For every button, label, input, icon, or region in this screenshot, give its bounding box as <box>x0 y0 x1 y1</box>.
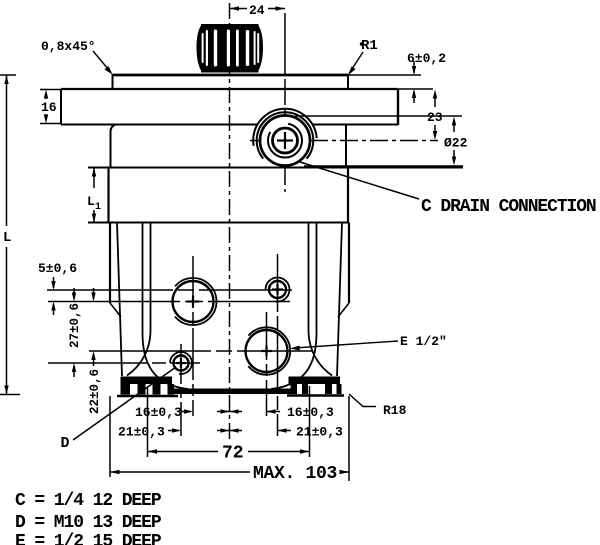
body inner contour right <box>271 223 332 390</box>
svg-text:21±0,3: 21±0,3 <box>296 425 343 440</box>
dimension 6±0,2 <box>348 51 446 103</box>
small upper right hole <box>266 278 290 302</box>
dimension L <box>0 75 20 395</box>
dimension 5±0,6 <box>38 261 77 315</box>
dimension 27±0,6 <box>68 288 82 377</box>
svg-text:MAX. 103: MAX. 103 <box>253 464 337 484</box>
big circle center cross <box>187 296 199 308</box>
E port vertical centerline <box>266 312 268 416</box>
label D with leader <box>61 367 177 452</box>
centerline vertical main axis <box>229 3 231 443</box>
body inner contour left <box>127 223 188 390</box>
svg-text:C DRAIN CONNECTION: C DRAIN CONNECTION <box>421 197 596 217</box>
label R18 <box>349 394 407 418</box>
dimension row 21±0,3 left <box>118 425 242 440</box>
svg-text:22±0,6: 22±0,6 <box>88 369 102 414</box>
svg-text:1: 1 <box>95 202 101 213</box>
svg-text:27±0,6: 27±0,6 <box>68 303 82 348</box>
svg-text:16±0,3: 16±0,3 <box>135 405 182 420</box>
drain port boss outer arc B <box>253 109 317 173</box>
dimension 23 <box>427 90 443 141</box>
D hole vertical centerline <box>180 344 182 436</box>
drain port bore <box>273 128 298 153</box>
svg-text:D: D <box>61 435 70 452</box>
dimension 72 <box>148 444 310 464</box>
dimension row 21±0,3 right <box>217 425 343 440</box>
dimension 24 top <box>230 3 286 18</box>
svg-text:6±0,2: 6±0,2 <box>407 51 446 66</box>
label R1 <box>348 38 378 76</box>
right foot <box>287 377 344 396</box>
svg-text:E 1/2": E 1/2" <box>400 334 447 349</box>
big circle vertical centerline <box>192 256 194 416</box>
dimension L1 <box>87 168 101 223</box>
drain port center cross <box>277 132 293 149</box>
svg-text:Ø22: Ø22 <box>444 136 468 151</box>
drain port boss outer arc A <box>257 112 314 169</box>
spline shaft <box>197 24 264 73</box>
svg-text:0,8x45°: 0,8x45° <box>41 39 96 54</box>
dimension 22±0,6 <box>88 288 102 414</box>
svg-text:L: L <box>87 194 95 209</box>
drain port horizontal centerline <box>250 140 438 142</box>
svg-text:21±0,3: 21±0,3 <box>118 425 165 440</box>
svg-text:E = 1/2 15 DEEP: E = 1/2 15 DEEP <box>15 532 162 545</box>
svg-text:D = M10 13 DEEP: D = M10 13 DEEP <box>15 513 162 533</box>
bottom extension lines <box>110 386 349 481</box>
base bar between feet <box>172 389 297 395</box>
svg-text:C = 1/4 12 DEEP: C = 1/4 12 DEEP <box>15 491 162 511</box>
svg-text:16±0,3: 16±0,3 <box>287 405 334 420</box>
dimension 16 flange <box>40 90 61 124</box>
svg-text:5±0,6: 5±0,6 <box>38 261 77 276</box>
dimension MAX. 103 <box>110 464 349 484</box>
svg-text:16: 16 <box>41 100 57 115</box>
label C DRAIN CONNECTION <box>300 162 596 217</box>
E port center cross <box>261 346 272 357</box>
big left port circle B <box>170 278 217 325</box>
top plate <box>113 74 349 89</box>
svg-text:R1: R1 <box>361 38 378 54</box>
chamfer label 0,8x45 <box>41 39 113 75</box>
E port circle <box>243 327 290 374</box>
neck section <box>111 125 347 168</box>
drain port boss circle <box>260 116 310 166</box>
svg-text:72: 72 <box>222 444 244 464</box>
D hole horizontal centerline <box>48 362 200 364</box>
L1 section box <box>88 168 348 223</box>
dimension row 16±0,3 left <box>135 405 242 420</box>
left foot <box>117 377 178 397</box>
svg-text:R18: R18 <box>383 403 407 418</box>
svg-text:23: 23 <box>427 110 443 125</box>
E port horizontal centerline <box>89 350 312 352</box>
big circle horizontal centerline <box>48 301 290 303</box>
drain port thread arc <box>268 124 302 158</box>
label E 1/2" <box>290 334 447 351</box>
body top line / tangent line <box>88 167 463 169</box>
svg-text:L: L <box>3 230 11 246</box>
dimension Ø22 <box>295 116 468 166</box>
body outer left edge <box>110 223 122 377</box>
svg-text:24: 24 <box>249 3 265 18</box>
D hole <box>170 352 192 374</box>
flange block <box>61 89 398 125</box>
dimension row 16±0,3 right <box>217 405 334 420</box>
small hole horizontal centerline / 5dim line <box>47 289 292 291</box>
body outer right edge <box>337 223 349 377</box>
small hole vertical centerline <box>277 254 279 436</box>
drain port vertical centerline / extension for 24 dim <box>284 13 286 192</box>
centerlines of body holes <box>47 254 312 436</box>
